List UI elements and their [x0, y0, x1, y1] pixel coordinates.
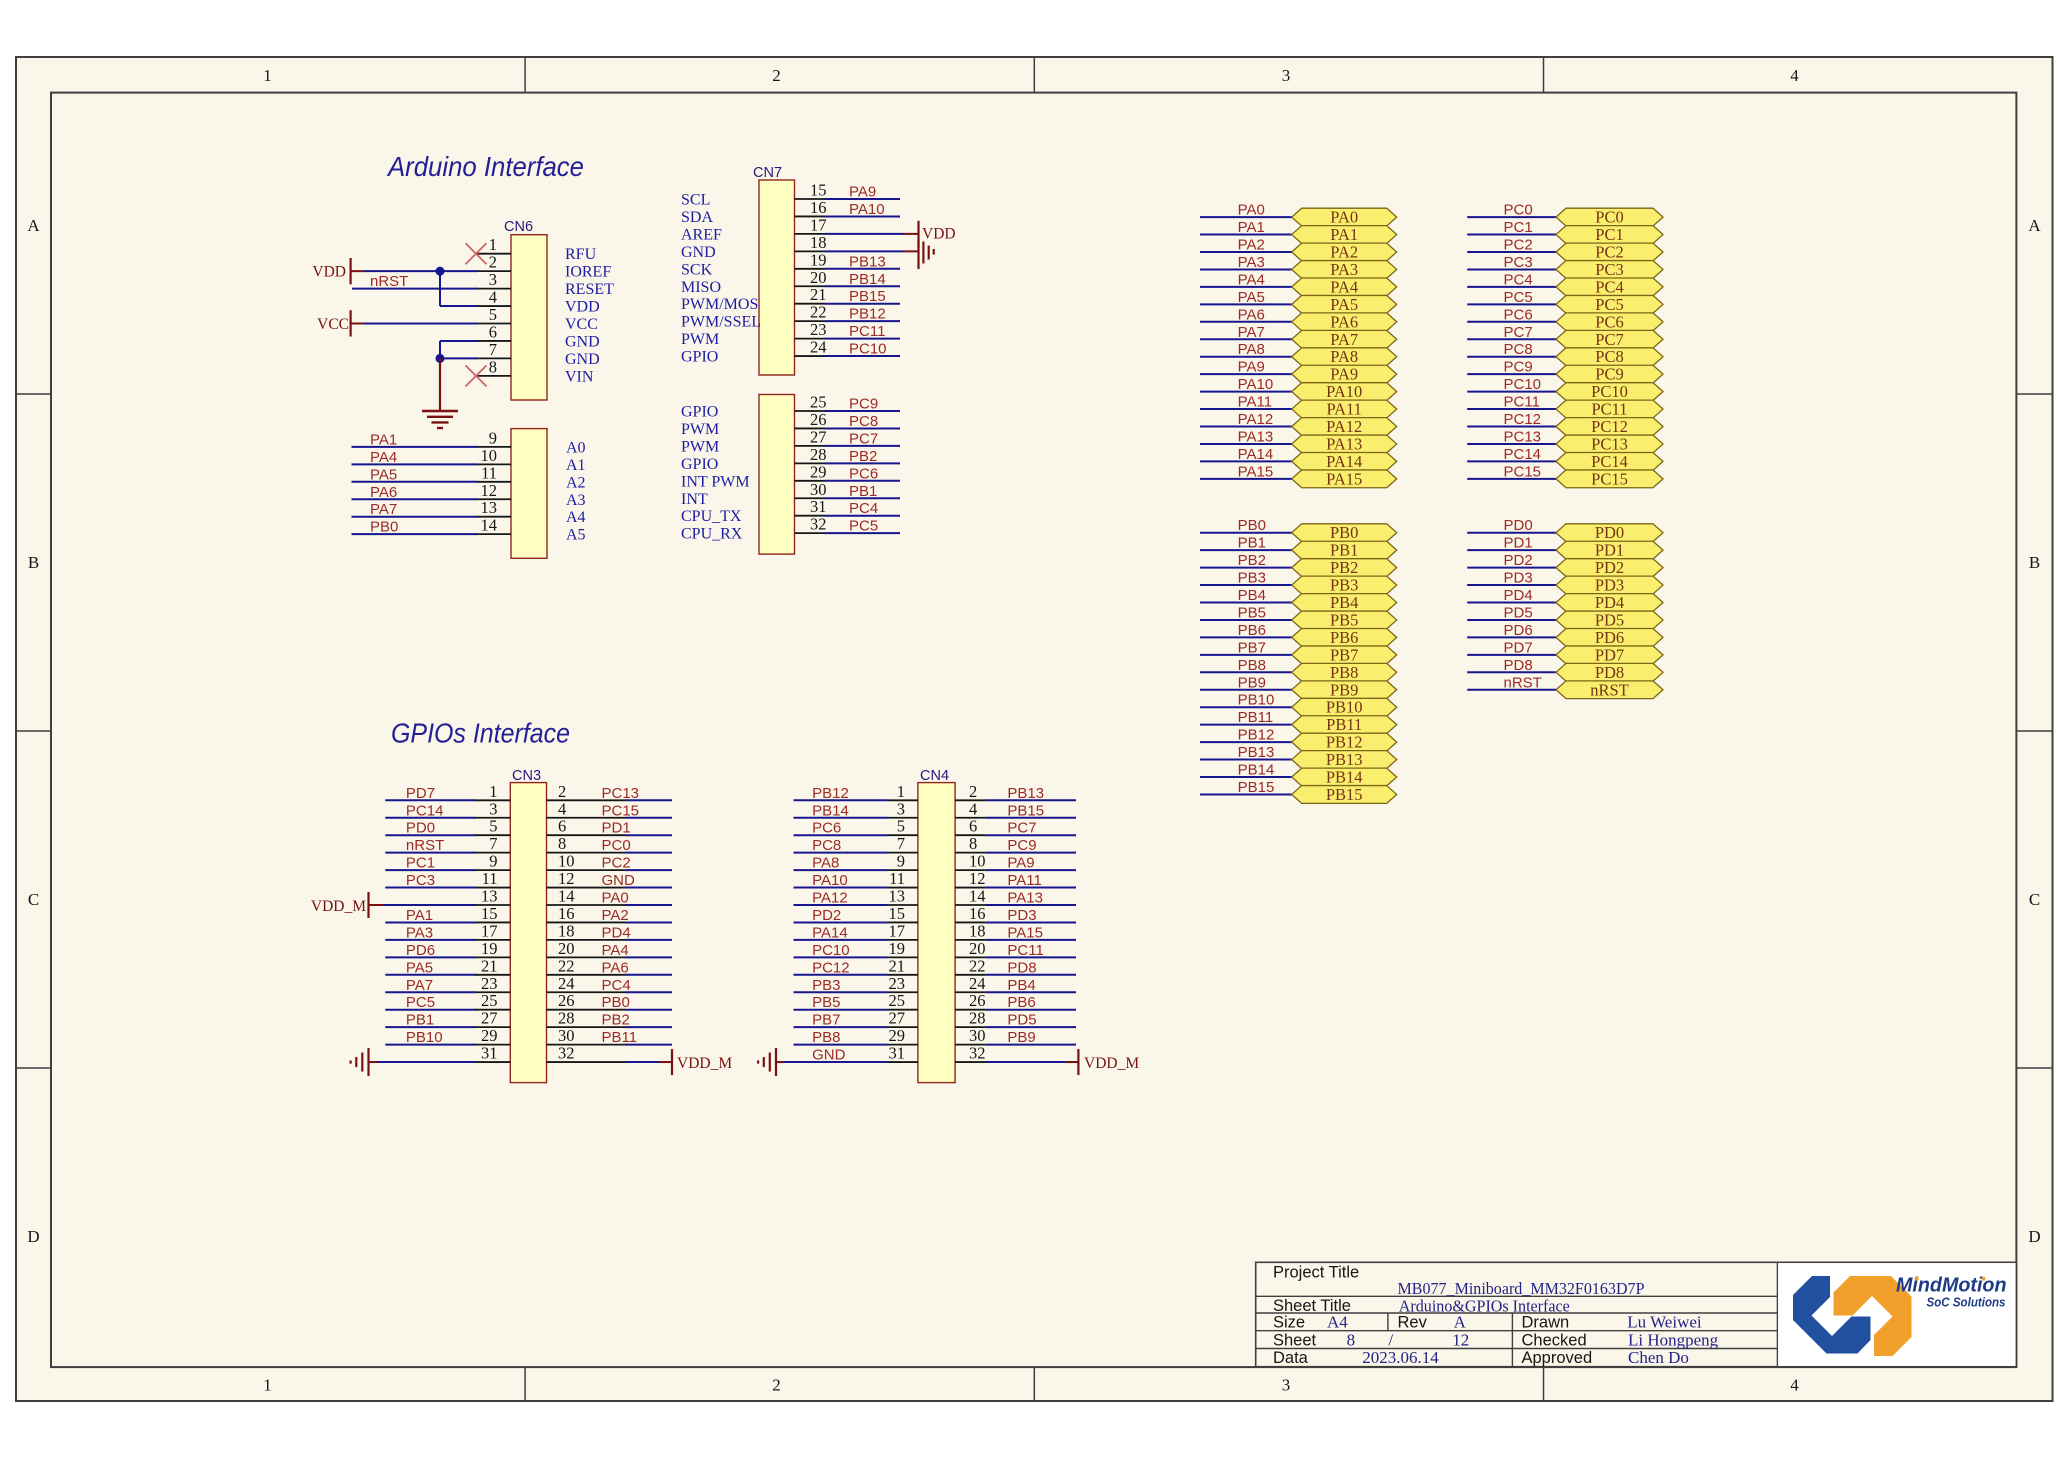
svg-text:3: 3	[897, 799, 905, 818]
port PC11	[1556, 400, 1663, 419]
svg-text:SoC Solutions: SoC Solutions	[1927, 1295, 2006, 1309]
CN3 pin 12	[547, 869, 626, 888]
svg-text:2: 2	[772, 66, 781, 85]
svg-text:PD3: PD3	[1595, 576, 1624, 595]
svg-text:PA4: PA4	[602, 942, 629, 959]
svg-text:PC7: PC7	[849, 430, 878, 447]
svg-text:32: 32	[810, 515, 827, 534]
svg-text:A: A	[2028, 216, 2041, 235]
svg-text:PA0: PA0	[1330, 208, 1358, 227]
ground power port at CN7 pin 18	[919, 240, 934, 269]
wire CN3 pin 11	[385, 887, 476, 889]
wire PC7 to port	[1467, 338, 1556, 340]
svg-text:PA11: PA11	[1326, 400, 1361, 419]
port PB4	[1292, 593, 1397, 612]
svg-text:PA9: PA9	[1330, 365, 1358, 384]
svg-text:32: 32	[558, 1044, 575, 1063]
wire PB5 to port	[1200, 619, 1292, 621]
port PD8	[1556, 663, 1663, 682]
CN3 pin 21	[475, 956, 511, 975]
port PC6	[1556, 312, 1663, 331]
svg-text:PC13: PC13	[1504, 428, 1542, 445]
svg-text:PA13: PA13	[1007, 890, 1043, 907]
port PB0	[1292, 523, 1397, 542]
svg-text:VDD_M: VDD_M	[1084, 1055, 1139, 1072]
wire PA6 to CN6 pin 12	[352, 498, 479, 500]
svg-text:VCC: VCC	[317, 316, 349, 333]
svg-text:PB12: PB12	[849, 306, 886, 323]
wire PA3 to port	[1200, 268, 1292, 270]
port PD2	[1556, 558, 1663, 577]
wire PA5 to port	[1200, 303, 1292, 305]
wire PB0 to port	[1200, 532, 1292, 534]
port PD6	[1556, 628, 1663, 647]
CN6 pin 13	[477, 498, 586, 526]
svg-text:12: 12	[969, 869, 986, 888]
CN6 pin 12	[477, 481, 586, 509]
svg-text:25: 25	[810, 393, 827, 412]
CN7 pin 17	[681, 215, 827, 243]
CN7 pin 29	[681, 462, 827, 490]
wire CN4 pin 11	[794, 887, 888, 889]
svg-text:PB1: PB1	[1238, 535, 1266, 552]
wire PA2 to port	[1200, 251, 1292, 253]
CN7 pin 26	[681, 410, 827, 438]
svg-text:14: 14	[558, 887, 575, 906]
svg-text:PB14: PB14	[849, 271, 886, 288]
svg-text:PC7: PC7	[1007, 820, 1036, 837]
wire PB15 from CN7 pin 21	[825, 303, 901, 305]
CN7 pin 27	[681, 427, 827, 455]
CN7 pin 21	[681, 285, 827, 313]
svg-text:PA7: PA7	[1238, 324, 1265, 341]
svg-text:PA9: PA9	[1238, 359, 1265, 376]
CN4 pin 5	[888, 817, 918, 836]
svg-text:PB10: PB10	[1238, 692, 1275, 709]
svg-text:PB6: PB6	[1330, 628, 1358, 647]
CN4 pin 7	[888, 834, 918, 853]
CN3 pin 15	[475, 904, 511, 923]
CN4 pin 26	[955, 991, 985, 1010]
svg-text:PB15: PB15	[1238, 779, 1275, 796]
svg-text:PWM: PWM	[681, 421, 719, 438]
svg-text:17: 17	[810, 215, 827, 234]
ground power port at CN4 pin 31	[758, 1048, 784, 1076]
wire PA15 to port	[1200, 478, 1292, 480]
svg-text:PA6: PA6	[370, 484, 397, 501]
svg-text:A4: A4	[566, 509, 586, 526]
wire PB1 to port	[1200, 549, 1292, 551]
wire PB4 to port	[1200, 602, 1292, 604]
svg-text:PC12: PC12	[812, 959, 850, 976]
svg-text:AREF: AREF	[681, 226, 722, 243]
svg-text:PA6: PA6	[602, 959, 629, 976]
svg-text:PB2: PB2	[1330, 558, 1358, 577]
svg-text:PC4: PC4	[1595, 277, 1623, 296]
svg-text:PA7: PA7	[370, 501, 397, 518]
svg-text:PB0: PB0	[370, 519, 398, 536]
wire CN3 pin 12	[625, 887, 672, 889]
svg-text:PC1: PC1	[1595, 225, 1623, 244]
wire CN4 pin 2	[985, 799, 1076, 801]
wire CN4 pin 15	[794, 921, 888, 923]
svg-text:18: 18	[810, 233, 827, 252]
svg-text:PA5: PA5	[1330, 295, 1358, 314]
CN3 pin 19	[475, 939, 511, 958]
svg-text:PB13: PB13	[1007, 785, 1044, 802]
port PD1	[1556, 541, 1663, 560]
svg-text:PD8: PD8	[1007, 959, 1036, 976]
svg-text:PD8: PD8	[1504, 657, 1533, 674]
wire PA6 to port	[1200, 321, 1292, 323]
wire CN3 pin 20	[625, 956, 672, 958]
svg-text:17: 17	[481, 921, 498, 940]
svg-text:PWM/SSEL: PWM/SSEL	[681, 314, 761, 331]
CN7 pin 15	[681, 181, 827, 209]
wire CN3 pin 18	[625, 939, 672, 941]
svg-text:GND: GND	[602, 872, 636, 889]
power port VDD_M at CN3 pin 13	[311, 892, 383, 918]
svg-text:29: 29	[810, 462, 827, 481]
wire CN4 pin 5	[794, 834, 888, 836]
wire PA9 to port	[1200, 373, 1292, 375]
svg-text:Arduino Interface: Arduino Interface	[386, 151, 584, 182]
svg-text:PB3: PB3	[812, 977, 840, 994]
CN7 pin 31	[681, 497, 827, 525]
svg-text:PD8: PD8	[1595, 663, 1624, 682]
port PB14	[1292, 768, 1397, 787]
CN4 pin 2	[955, 782, 985, 801]
svg-text:Rev: Rev	[1398, 1314, 1428, 1332]
svg-text:1: 1	[897, 782, 905, 801]
svg-text:24: 24	[558, 974, 575, 993]
wire PC15 to port	[1467, 478, 1556, 480]
wire PD1 to port	[1467, 549, 1556, 551]
svg-text:PC5: PC5	[1504, 289, 1533, 306]
svg-text:PC3: PC3	[406, 872, 435, 889]
svg-text:PB12: PB12	[1326, 733, 1363, 752]
wire PD5 to port	[1467, 619, 1556, 621]
svg-text:PA10: PA10	[1238, 376, 1274, 393]
CN3 pin 27	[475, 1009, 511, 1028]
svg-text:nRST: nRST	[1590, 680, 1629, 699]
wire CN4 pin 31	[784, 1061, 888, 1063]
svg-text:PB2: PB2	[849, 448, 877, 465]
svg-text:PB15: PB15	[1326, 785, 1363, 804]
port PA1	[1292, 225, 1397, 244]
svg-text:22: 22	[810, 303, 827, 322]
svg-text:27: 27	[889, 1009, 906, 1028]
port PA8	[1292, 347, 1397, 366]
svg-text:PB9: PB9	[1007, 1029, 1035, 1046]
wire CN3 pin 13	[383, 904, 476, 906]
svg-text:4: 4	[558, 799, 566, 818]
wire PC5 from CN7 pin 32	[825, 532, 901, 534]
svg-text:20: 20	[969, 939, 986, 958]
svg-text:24: 24	[810, 338, 827, 357]
svg-text:8: 8	[969, 834, 977, 853]
wire PC1 to port	[1467, 234, 1556, 236]
wire PC8 to port	[1467, 356, 1556, 358]
svg-text:PC0: PC0	[1504, 202, 1533, 219]
svg-text:PB2: PB2	[1238, 552, 1266, 569]
CN3 pin 9	[475, 852, 511, 871]
svg-text:23: 23	[810, 320, 827, 339]
MindMotion logo blue arrow	[1793, 1276, 1871, 1354]
wire PD6 to port	[1467, 636, 1556, 638]
svg-text:PA3: PA3	[406, 924, 433, 941]
svg-text:PB8: PB8	[812, 1029, 840, 1046]
wire PA8 to port	[1200, 356, 1292, 358]
svg-text:6: 6	[558, 817, 566, 836]
wire PD8 to port	[1467, 671, 1556, 673]
svg-text:30: 30	[558, 1026, 575, 1045]
svg-text:PB13: PB13	[1326, 750, 1363, 769]
CN6 pin 8	[477, 357, 594, 385]
svg-text:2: 2	[489, 253, 497, 272]
CN7 pin 16	[681, 198, 827, 226]
port PA11	[1292, 400, 1397, 419]
svg-text:12: 12	[481, 481, 498, 500]
svg-text:10: 10	[558, 852, 575, 871]
svg-text:PA7: PA7	[406, 977, 433, 994]
power port VDD at CN7 pin 17	[919, 221, 956, 247]
svg-text:VCC: VCC	[565, 316, 598, 333]
port PA3	[1292, 260, 1397, 279]
wire CN3 pin 9	[385, 869, 476, 871]
CN6 pin 2	[477, 253, 611, 281]
svg-text:VIN: VIN	[565, 368, 594, 385]
power port VDD_M at CN4 pin 32	[1078, 1049, 1139, 1075]
svg-text:PB10: PB10	[1326, 698, 1363, 717]
port PA13	[1292, 434, 1397, 453]
port PC5	[1556, 295, 1663, 314]
svg-text:PC6: PC6	[812, 820, 841, 837]
svg-text:PB7: PB7	[1238, 639, 1266, 656]
svg-text:PD4: PD4	[602, 924, 631, 941]
svg-text:VDD: VDD	[922, 226, 956, 243]
wire CN3 pin 30	[625, 1044, 672, 1046]
svg-text:8: 8	[558, 834, 566, 853]
svg-text:PB14: PB14	[1326, 768, 1363, 787]
svg-text:PB4: PB4	[1330, 593, 1358, 612]
svg-text:PB5: PB5	[1330, 610, 1358, 629]
CN4 pin 10	[955, 852, 985, 871]
svg-text:5: 5	[489, 305, 497, 324]
svg-text:PA5: PA5	[370, 466, 397, 483]
svg-text:25: 25	[889, 991, 906, 1010]
CN4 pin 14	[955, 887, 985, 906]
svg-text:Li Hongpeng: Li Hongpeng	[1628, 1330, 1719, 1349]
svg-text:PC9: PC9	[1595, 365, 1623, 384]
port PA9	[1292, 365, 1397, 384]
logo wordmark i-dots	[1915, 1277, 1986, 1281]
CN4 pin 15	[888, 904, 918, 923]
CN3 pin 26	[547, 991, 626, 1010]
port PB2	[1292, 558, 1397, 577]
port PB5	[1292, 610, 1397, 629]
svg-text:PA13: PA13	[1326, 434, 1362, 453]
port PA10	[1292, 382, 1397, 401]
svg-text:PB12: PB12	[812, 785, 849, 802]
sheet number 8 / 12	[1347, 1330, 1470, 1349]
CN3 pin 4	[547, 799, 626, 818]
svg-text:PA9: PA9	[849, 184, 876, 201]
CN4 pin 28	[955, 1009, 985, 1028]
svg-text:PB5: PB5	[1238, 604, 1266, 621]
svg-text:PC4: PC4	[602, 977, 631, 994]
CN4 pin 30	[955, 1026, 985, 1045]
wire CN3 pin 27	[385, 1026, 476, 1028]
svg-text:22: 22	[969, 956, 986, 975]
svg-text:Drawn: Drawn	[1522, 1314, 1570, 1332]
svg-text:MISO: MISO	[681, 279, 721, 296]
wire PA7 to port	[1200, 338, 1292, 340]
wire PB9 to port	[1200, 689, 1292, 691]
svg-text:SDA: SDA	[681, 209, 713, 226]
svg-text:8: 8	[1347, 1330, 1356, 1349]
svg-text:PA14: PA14	[1238, 446, 1274, 463]
svg-text:PC10: PC10	[849, 341, 887, 358]
svg-text:13: 13	[481, 887, 498, 906]
svg-text:27: 27	[810, 427, 827, 446]
CN4 pin 13	[888, 887, 918, 906]
svg-text:CN7: CN7	[753, 165, 782, 181]
svg-text:PC7: PC7	[1504, 324, 1533, 341]
wire CN3 pin 29	[385, 1044, 476, 1046]
svg-text:PA3: PA3	[1330, 260, 1358, 279]
svg-text:PB3: PB3	[1330, 576, 1358, 595]
svg-text:PD6: PD6	[406, 942, 435, 959]
wire CN3 pin 7	[385, 852, 476, 854]
wire CN4 pin 4	[985, 817, 1076, 819]
junction at GND branch	[436, 354, 445, 363]
svg-text:PC2: PC2	[1595, 243, 1623, 262]
CN3 pin 3	[475, 799, 511, 818]
port PB3	[1292, 576, 1397, 595]
CN3 pin 24	[547, 974, 626, 993]
CN3 pin 5	[475, 817, 511, 836]
wire CN3 pin 8	[625, 852, 672, 854]
wire VDD to CN6 pin 2	[364, 270, 478, 272]
svg-text:29: 29	[481, 1026, 498, 1045]
svg-text:3: 3	[489, 799, 497, 818]
CN3 pin 2	[547, 782, 626, 801]
svg-text:26: 26	[969, 991, 986, 1010]
svg-text:30: 30	[969, 1026, 986, 1045]
svg-text:Arduino&GPIOs Interface: Arduino&GPIOs Interface	[1399, 1296, 1570, 1315]
wire PA10 from CN7 pin 16	[825, 215, 901, 217]
svg-text:PA9: PA9	[1007, 855, 1034, 872]
svg-text:CPU_TX: CPU_TX	[681, 508, 742, 525]
svg-text:PB7: PB7	[1330, 645, 1358, 664]
title block labels	[1273, 1264, 1592, 1368]
wire CN3 pin 23	[385, 991, 476, 993]
svg-text:PD0: PD0	[1595, 523, 1624, 542]
svg-text:23: 23	[889, 974, 906, 993]
port PB1	[1292, 541, 1397, 560]
CN6 pin 5	[477, 305, 598, 333]
svg-text:PD0: PD0	[1504, 517, 1533, 534]
wire PB11 to port	[1200, 724, 1292, 726]
svg-text:PA12: PA12	[1326, 417, 1362, 436]
CN7 pin 22	[681, 303, 827, 331]
CN4 pin 17	[888, 921, 918, 940]
CN7 pin 18	[681, 233, 827, 261]
svg-text:PA5: PA5	[1238, 289, 1265, 306]
port PA6	[1292, 312, 1397, 331]
wire PA12 to port	[1200, 426, 1292, 428]
svg-text:4: 4	[489, 288, 497, 307]
svg-text:5: 5	[897, 817, 905, 836]
svg-text:1: 1	[263, 66, 272, 85]
svg-text:28: 28	[558, 1009, 575, 1028]
wire CN7 pin 17 to VDD	[825, 233, 919, 235]
svg-text:PD6: PD6	[1504, 622, 1533, 639]
wire PB7 to port	[1200, 654, 1292, 656]
svg-text:26: 26	[810, 410, 827, 429]
svg-text:PA2: PA2	[1238, 237, 1265, 254]
wire PB2 from CN7 pin 28	[825, 462, 901, 464]
svg-text:PA4: PA4	[1330, 277, 1358, 296]
svg-text:PC5: PC5	[849, 518, 878, 535]
wire PB14 to port	[1200, 776, 1292, 778]
connector CN6 body	[511, 235, 547, 400]
svg-text:PC12: PC12	[1504, 411, 1542, 428]
power port VDD_M at CN3 pin 32	[672, 1049, 732, 1075]
svg-text:PC11: PC11	[1007, 942, 1043, 959]
port PA0	[1292, 208, 1397, 227]
svg-text:PD5: PD5	[1007, 1012, 1036, 1029]
wire PA9 from CN7 pin 15	[825, 198, 901, 200]
wire PC10 to port	[1467, 391, 1556, 393]
wire CN4 pin 27	[794, 1026, 888, 1028]
wire PB1 from CN7 pin 30	[825, 497, 901, 499]
svg-text:PD2: PD2	[1504, 552, 1533, 569]
svg-text:PC14: PC14	[1504, 446, 1542, 463]
CN7 pin 20	[681, 268, 827, 296]
svg-text:PB4: PB4	[1238, 587, 1266, 604]
svg-text:PB6: PB6	[1007, 994, 1035, 1011]
svg-text:7: 7	[897, 834, 905, 853]
svg-text:PB15: PB15	[1007, 802, 1044, 819]
svg-text:4: 4	[1790, 66, 1799, 85]
svg-text:PA15: PA15	[1326, 469, 1362, 488]
svg-text:nRST: nRST	[1504, 674, 1542, 691]
svg-text:PWM: PWM	[681, 438, 719, 455]
svg-text:Approved: Approved	[1522, 1349, 1593, 1367]
svg-text:PA2: PA2	[1330, 243, 1358, 262]
svg-text:19: 19	[889, 939, 906, 958]
svg-text:PC11: PC11	[849, 323, 885, 340]
svg-text:PA15: PA15	[1238, 463, 1274, 480]
svg-text:PA8: PA8	[1238, 341, 1265, 358]
CN4 pin 20	[955, 939, 985, 958]
svg-text:PB15: PB15	[849, 288, 886, 305]
svg-text:PA1: PA1	[406, 907, 433, 924]
wire CN4 pin 6	[985, 834, 1076, 836]
svg-text:15: 15	[810, 181, 827, 200]
wire PB6 to port	[1200, 636, 1292, 638]
svg-text:PD2: PD2	[1595, 558, 1624, 577]
svg-text:MB077_Miniboard_MM32F0163D7P: MB077_Miniboard_MM32F0163D7P	[1398, 1279, 1645, 1298]
svg-text:32: 32	[969, 1044, 986, 1063]
wire CN4 pin 32 to VDD_M	[985, 1061, 1078, 1063]
svg-text:PB8: PB8	[1330, 663, 1358, 682]
wire CN4 pin 25	[794, 1009, 888, 1011]
CN3 pin 14	[547, 887, 626, 906]
wire PC10 from CN7 pin 24	[825, 355, 901, 357]
